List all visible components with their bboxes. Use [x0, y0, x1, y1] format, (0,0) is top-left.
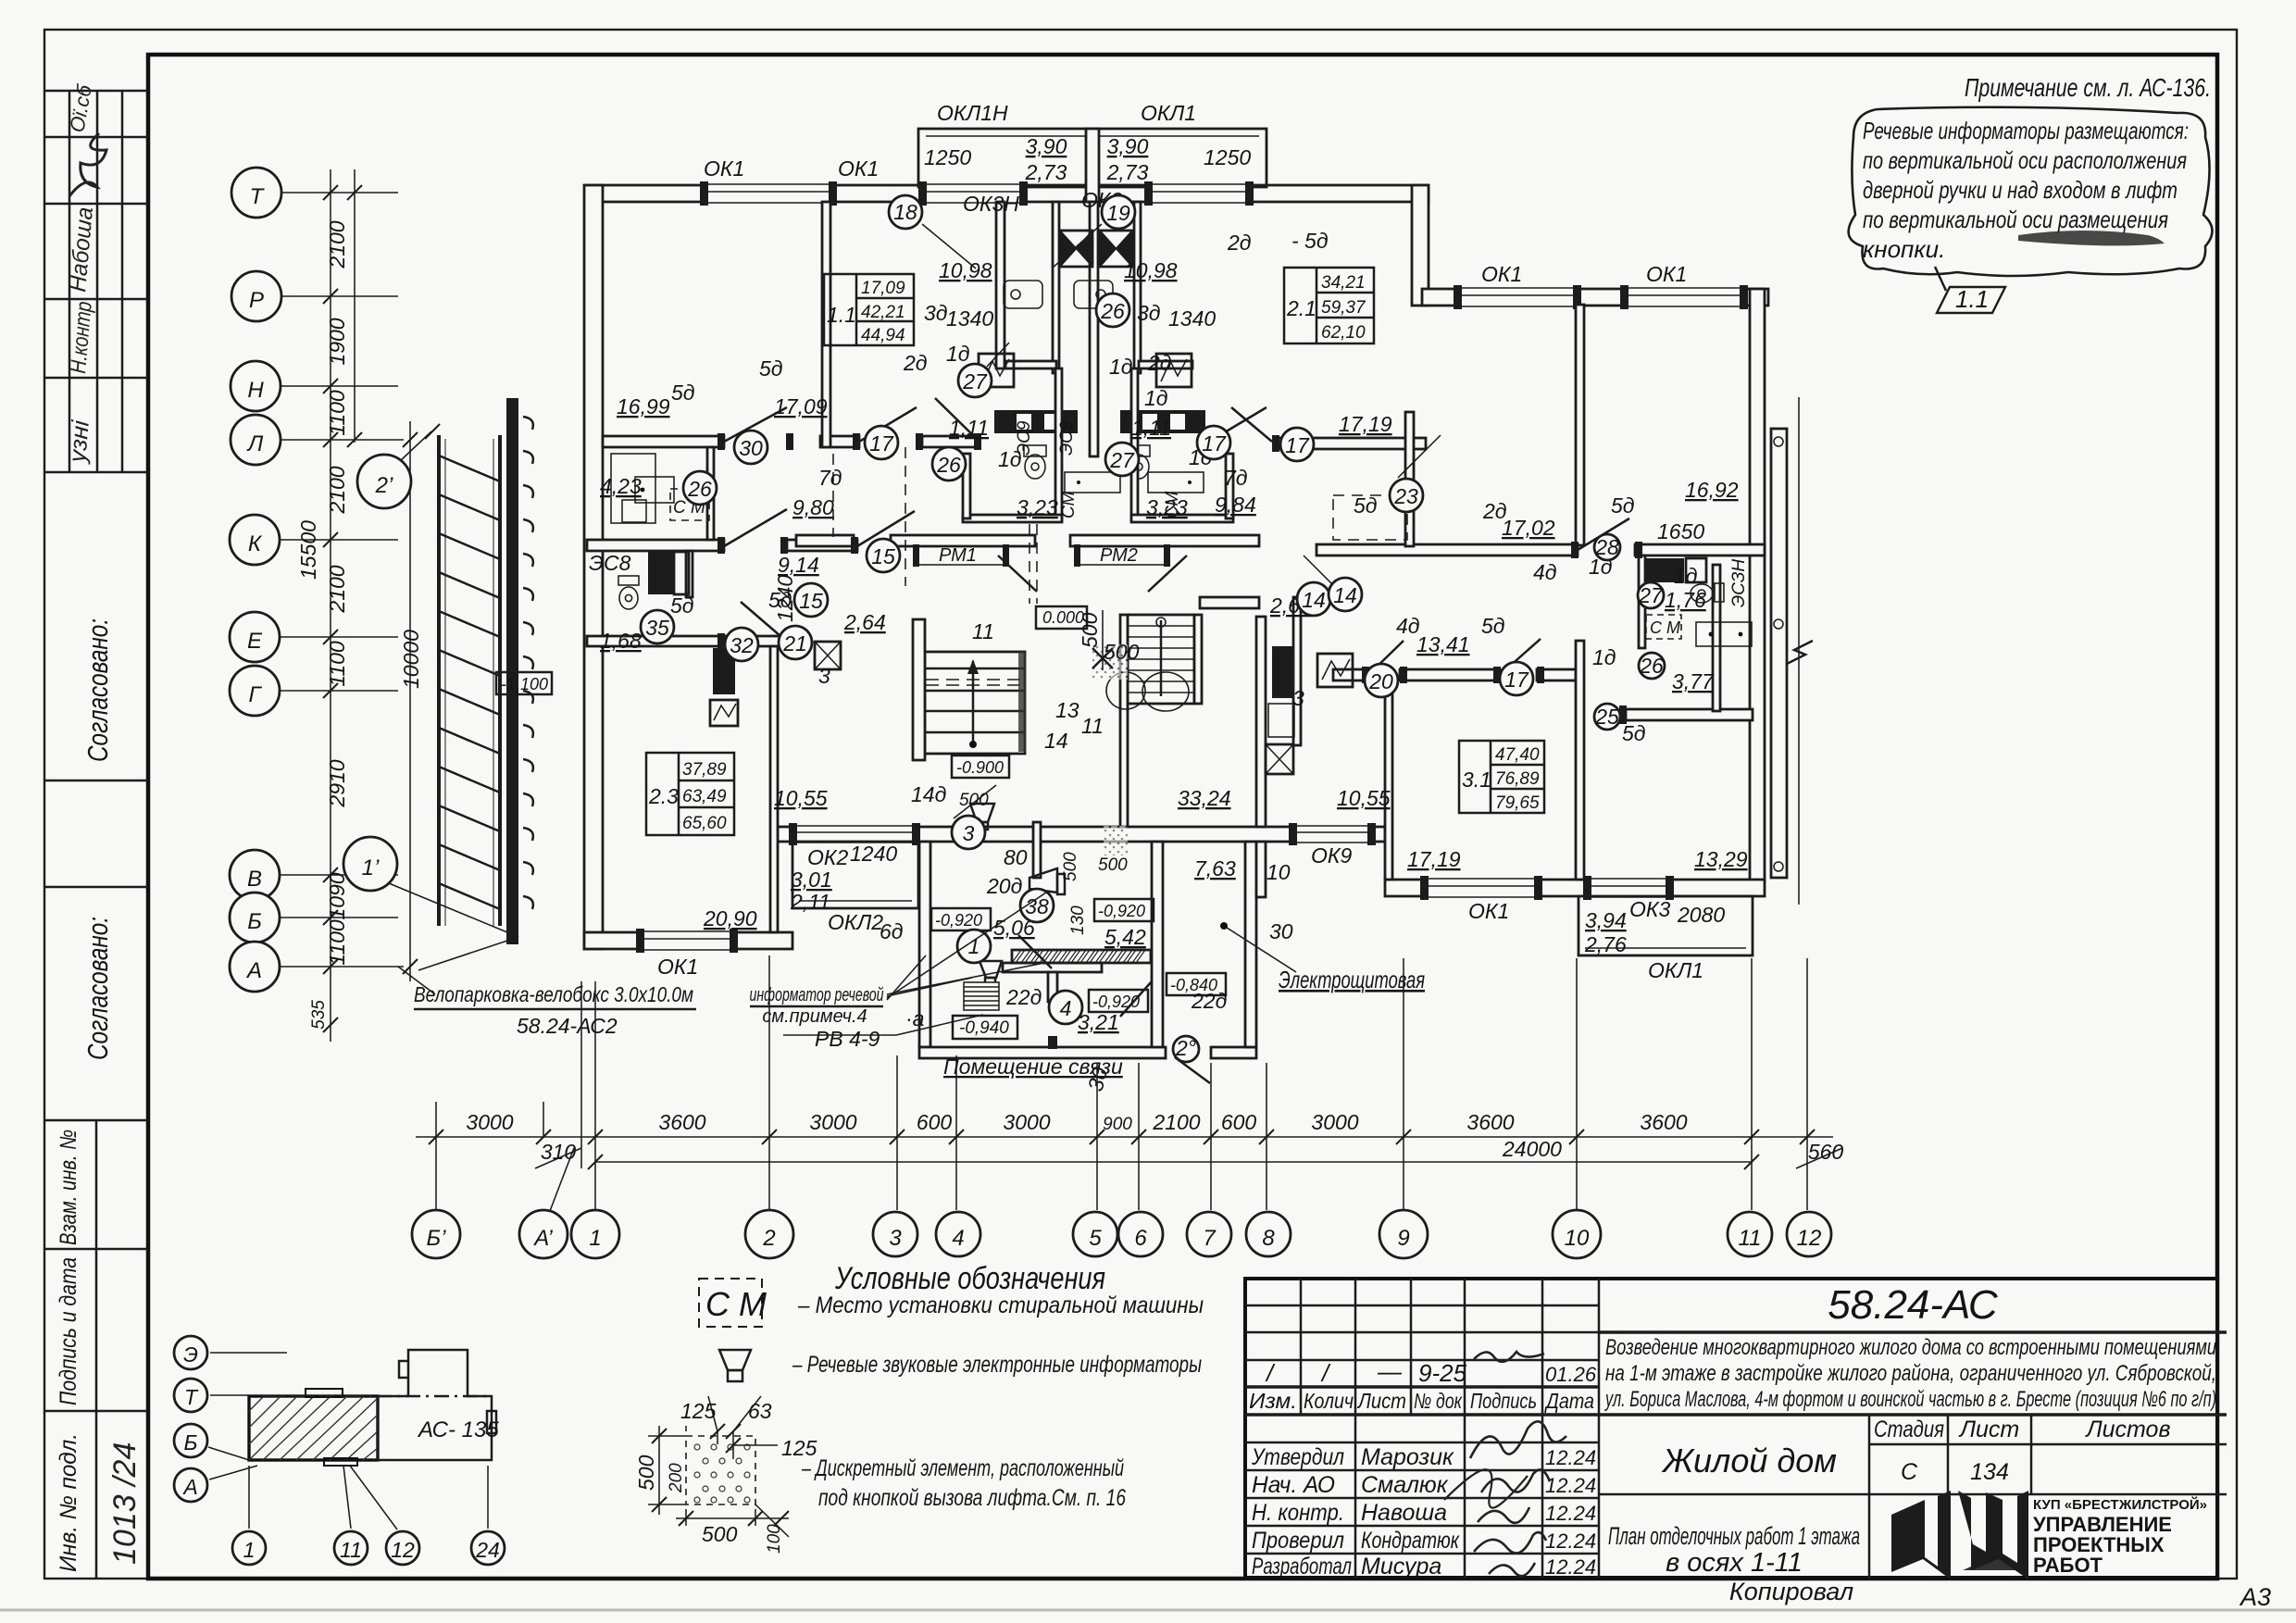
svg-text:ОК2: ОК2 — [807, 845, 848, 869]
svg-text:1д: 1д — [1674, 564, 1698, 588]
svg-text:ОК1: ОК1 — [704, 156, 744, 181]
svg-text:20,90: 20,90 — [703, 906, 757, 930]
svg-text:17: 17 — [1504, 668, 1529, 692]
svg-text:С М: С М — [705, 1285, 767, 1323]
axis bubble A — [230, 942, 280, 992]
svg-text:ОК1: ОК1 — [657, 955, 698, 979]
svg-text:1’: 1’ — [362, 855, 380, 880]
svg-text:2°: 2° — [1175, 1036, 1196, 1060]
bath tubs — [1004, 281, 1113, 308]
svg-text:11: 11 — [972, 619, 994, 643]
SM room walls right — [1639, 556, 1645, 648]
svg-text:26: 26 — [1100, 299, 1125, 323]
SM dashed box left — [670, 489, 709, 520]
svg-text:130: 130 — [1068, 905, 1088, 935]
svg-text:59,37: 59,37 — [1321, 298, 1366, 318]
svg-text:2,11: 2,11 — [790, 890, 830, 914]
svg-text:Р: Р — [249, 288, 264, 313]
svg-text:ЭС9: ЭС9 — [1057, 420, 1077, 456]
header row labels — [1249, 1389, 1594, 1413]
speaker trapezoids lower — [970, 804, 994, 830]
svg-text:узні: узні — [63, 418, 94, 466]
axis bubble 4 — [936, 1212, 980, 1256]
svg-text:3,77: 3,77 — [1672, 669, 1715, 693]
grille RV4-9 — [964, 982, 999, 1010]
svg-text:26: 26 — [687, 477, 712, 501]
tag 1.1 parallelogram — [1937, 287, 2005, 313]
keyplan axis bubble E — [174, 1336, 207, 1369]
svg-text:17,02: 17,02 — [1502, 516, 1555, 540]
svg-text:63,49: 63,49 — [682, 787, 727, 806]
svg-text:16,92: 16,92 — [1685, 478, 1739, 502]
svg-text:65,60: 65,60 — [682, 814, 727, 833]
svg-text:ОК3: ОК3 — [1629, 897, 1670, 921]
svg-text:10,98: 10,98 — [1124, 258, 1178, 282]
company logo — [1891, 1491, 2028, 1579]
svg-text:Инв. № подл.: Инв. № подл. — [56, 1433, 81, 1572]
svg-text:500: 500 — [1078, 612, 1102, 648]
svg-text:3600: 3600 — [658, 1110, 705, 1134]
svg-text:3,90: 3,90 — [1026, 134, 1067, 158]
svg-text:1,11: 1,11 — [949, 416, 989, 440]
svg-text:200: 200 — [667, 1463, 686, 1493]
svg-text:20: 20 — [1368, 669, 1393, 693]
left dimension chain line — [331, 169, 355, 1042]
svg-text:Т: Т — [184, 1385, 199, 1409]
window OK1 bottom-right — [1420, 875, 1542, 901]
svg-text:ОК1: ОК1 — [838, 156, 879, 181]
toilet 2 — [1128, 445, 1150, 479]
svg-text:7д: 7д — [1224, 466, 1248, 490]
svg-text:32: 32 — [730, 633, 754, 657]
window OK1 right-1 — [1454, 284, 1581, 310]
svg-text:5д: 5д — [1481, 614, 1505, 638]
bottom axis bubbles — [412, 1137, 1831, 1258]
svg-text:1,68: 1,68 — [600, 629, 642, 653]
svg-text:2,73: 2,73 — [1025, 160, 1067, 184]
svg-text:под кнопкой вызова лифта.См. п: под кнопкой вызова лифта.См. п. 16 — [818, 1485, 1126, 1511]
title block outer — [1245, 1279, 2217, 1578]
corridor top wall — [603, 436, 724, 447]
axis bubble A' — [519, 1210, 568, 1258]
svg-text:2.1: 2.1 — [1286, 296, 1316, 320]
svg-text:9,14: 9,14 — [778, 553, 819, 577]
axis bubble 10 — [1553, 1210, 1601, 1258]
svg-text:7: 7 — [1203, 1226, 1217, 1251]
chain tick marks — [429, 1130, 1815, 1169]
kitchen fixtures left (9,80) — [713, 648, 735, 694]
exterior wall top — [587, 185, 1429, 202]
svg-text:С: С — [1901, 1459, 1918, 1485]
svg-text:9,84: 9,84 — [1215, 493, 1256, 517]
svg-text:План отделочных работ 1 этажа: План отделочных работ 1 этажа — [1608, 1522, 1860, 1550]
svg-text:2100: 2100 — [325, 220, 349, 268]
logo texts — [2033, 1496, 2207, 1577]
svg-text:ОКЛ1: ОКЛ1 — [1141, 101, 1196, 125]
window OK1 bottom-left — [636, 928, 738, 954]
svg-text:28: 28 — [1594, 535, 1619, 559]
left bathroom block walls — [707, 447, 714, 540]
svg-text:№ док: № док — [1414, 1389, 1463, 1413]
svg-text:Кондратюк: Кондратюк — [1361, 1528, 1460, 1554]
svg-text:33,24: 33,24 — [1178, 786, 1231, 810]
toilet ES8 — [618, 576, 639, 609]
svg-text:А’: А’ — [532, 1226, 553, 1251]
window OK1 top-2 — [918, 181, 1028, 206]
svg-text:-0.900: -0.900 — [956, 758, 1004, 777]
window OK3 bottom-right — [1583, 875, 1674, 901]
exterior wall top right — [1422, 289, 1768, 306]
room divider wall 2 — [996, 202, 1004, 368]
svg-text:17,09: 17,09 — [861, 279, 905, 298]
svg-text:4: 4 — [1060, 996, 1072, 1020]
keyplan axis bubble 24 — [471, 1531, 505, 1565]
svg-text:1: 1 — [243, 1538, 256, 1562]
inner hatched wall svyazi — [1012, 950, 1151, 963]
svg-text:19: 19 — [1106, 201, 1130, 225]
svg-text:Возведение многоквартирного жи: Возведение многоквартирного жилого дома … — [1605, 1335, 2216, 1360]
svg-text:63: 63 — [748, 1399, 772, 1423]
svg-text:26: 26 — [1639, 654, 1664, 678]
svg-text:5,42: 5,42 — [1104, 925, 1146, 949]
legend dim lines — [648, 1396, 789, 1537]
svg-text:Проверил: Проверил — [1252, 1528, 1344, 1554]
room 20,90 right wall — [770, 646, 778, 932]
loggia divider — [1086, 129, 1099, 202]
svg-text:17: 17 — [1202, 431, 1227, 456]
svg-text:3: 3 — [889, 1226, 902, 1251]
svg-text:3600: 3600 — [1466, 1110, 1514, 1134]
svg-text:76,89: 76,89 — [1495, 769, 1540, 789]
svg-text:3д: 3д — [924, 301, 948, 325]
stair B block — [1128, 615, 1194, 704]
keyplan building right part — [262, 1350, 496, 1460]
svg-text:6: 6 — [1134, 1226, 1147, 1251]
svg-text:13: 13 — [1055, 698, 1079, 722]
svg-text:Б: Б — [184, 1430, 198, 1454]
svg-text:3: 3 — [818, 664, 830, 688]
left axis bubbles column — [230, 168, 281, 992]
svg-text:2100: 2100 — [1152, 1110, 1200, 1134]
stipple pads — [1092, 644, 1128, 855]
svg-text:17,09: 17,09 — [774, 394, 828, 418]
svg-text:ОК3Н: ОК3Н — [963, 192, 1019, 216]
svg-text:4: 4 — [952, 1226, 964, 1251]
keyplan axis bubble 1 — [232, 1531, 266, 1565]
inner wall svyazi vertical — [1048, 972, 1057, 1002]
svg-text:600: 600 — [917, 1110, 953, 1134]
svg-text:СМ: СМ — [1059, 491, 1079, 518]
svg-text:1д: 1д — [1144, 386, 1168, 410]
axis bubble 12 — [1787, 1212, 1831, 1256]
svg-text:1250: 1250 — [924, 145, 971, 169]
svg-text:9: 9 — [1397, 1226, 1409, 1251]
svg-text:см.примеч.4: см.примеч.4 — [762, 1006, 867, 1027]
corridor wall right (y588) — [1316, 544, 1578, 556]
leader lines to circles — [922, 224, 1441, 818]
keyplan axis bubble 12 — [386, 1531, 419, 1565]
svg-text:Условные обозначения: Условные обозначения — [834, 1261, 1105, 1296]
svg-text:8: 8 — [1262, 1226, 1275, 1251]
svg-text:5д: 5д — [759, 356, 783, 381]
svg-text:Мисура: Мисура — [1361, 1554, 1441, 1579]
svg-text:2100: 2100 — [325, 466, 349, 514]
svg-text:14: 14 — [1044, 729, 1068, 753]
svg-text:14: 14 — [1333, 583, 1357, 607]
svg-text:РМ1: РМ1 — [939, 545, 977, 566]
axis bubble L — [231, 415, 281, 465]
svg-text:Велопарковка-велобокс 3.0х10.0: Велопарковка-велобокс 3.0х10.0м — [414, 982, 693, 1006]
apartment info box 3.1 — [1459, 741, 1544, 813]
stair A left wall — [913, 619, 925, 760]
svg-text:Н: Н — [247, 378, 264, 403]
svg-text:Жилой дом: Жилой дом — [1661, 1442, 1837, 1479]
svg-text:500: 500 — [1061, 852, 1080, 881]
apartment info box 1.1 — [824, 274, 914, 345]
svg-text:Колич: Колич — [1304, 1389, 1354, 1413]
lower annex walls (Pomeshchenie svyazi / electro room) — [919, 842, 930, 1047]
apartment info box 2.3 — [646, 753, 734, 835]
svg-text:Дата: Дата — [1543, 1389, 1594, 1413]
svg-text:ОКЛ2: ОКЛ2 — [828, 910, 883, 934]
leader to 1.1 tag — [1935, 267, 1946, 291]
svg-text:Э: Э — [183, 1342, 198, 1367]
svg-text:В: В — [247, 867, 262, 892]
svg-text:4д: 4д — [1533, 560, 1557, 584]
balcony OKL1 bottom — [1578, 896, 1753, 955]
svg-text:18: 18 — [893, 200, 917, 224]
balcony OKL2 — [792, 842, 918, 908]
svg-text:Марозик: Марозик — [1361, 1444, 1454, 1470]
axis bubble 5 — [1073, 1212, 1117, 1256]
svg-text:12.24: 12.24 — [1545, 1502, 1596, 1525]
axis bubble P — [231, 271, 281, 321]
svg-text:Примечание см. л. АС-136.: Примечание см. л. АС-136. — [1965, 73, 2211, 102]
svg-text:13,29: 13,29 — [1694, 847, 1748, 871]
axis bubble 9 — [1379, 1210, 1428, 1258]
svg-text:5д: 5д — [1611, 493, 1635, 518]
chain dim labels — [466, 1110, 1050, 1134]
svg-text:12.24: 12.24 — [1545, 1474, 1596, 1497]
apartment info box 2.1 — [1284, 268, 1374, 343]
svg-text:Г: Г — [248, 682, 262, 707]
svg-text:1900: 1900 — [325, 318, 349, 365]
svg-text:11: 11 — [340, 1538, 362, 1562]
svg-text:1,76: 1,76 — [1665, 588, 1706, 612]
svg-text:27: 27 — [1109, 448, 1135, 472]
svg-text:15: 15 — [799, 589, 823, 613]
svg-text:26: 26 — [936, 453, 961, 477]
revision row — [1265, 1357, 1597, 1387]
svg-text:·а: ·а — [905, 1006, 924, 1030]
toilet right SM — [1691, 583, 1724, 603]
svg-text:58.24-АС2: 58.24-АС2 — [517, 1014, 618, 1038]
axis bubble B — [230, 893, 280, 943]
svg-text:600: 600 — [1221, 1110, 1257, 1134]
axis bubble 6 — [1118, 1212, 1163, 1256]
svg-text:5д: 5д — [670, 593, 694, 618]
dim labels in plan — [773, 134, 1725, 956]
outer pilaster strip right — [1771, 429, 1787, 878]
keyplan axis bubble T — [174, 1379, 207, 1412]
svg-text:Л: Л — [246, 431, 264, 456]
svg-text:3000: 3000 — [809, 1110, 856, 1134]
svg-text:Взам. инв. №: Взам. инв. № — [56, 1130, 81, 1245]
svg-text:Б’: Б’ — [427, 1226, 447, 1251]
svg-text:5: 5 — [1089, 1226, 1102, 1251]
svg-text:К: К — [248, 531, 263, 556]
bathroom top walls — [1005, 361, 1056, 368]
svg-text:500: 500 — [1098, 855, 1128, 875]
legend speaker icon — [719, 1350, 751, 1381]
svg-text:35: 35 — [645, 616, 669, 640]
toilet 1 — [1024, 445, 1046, 479]
svg-text:25: 25 — [1594, 705, 1619, 729]
svg-text:1340: 1340 — [946, 306, 993, 331]
svg-text:2д: 2д — [1147, 351, 1172, 375]
svg-text:17: 17 — [869, 431, 894, 456]
svg-text:9,80: 9,80 — [792, 495, 834, 519]
left stamp strip columns — [44, 91, 148, 1579]
svg-text:10,55: 10,55 — [774, 786, 828, 810]
svg-text:24000: 24000 — [1502, 1137, 1562, 1161]
stamp strip signatures (handwritten) — [63, 81, 106, 465]
svg-text:310: 310 — [541, 1140, 577, 1164]
svg-text:1650: 1650 — [1657, 519, 1704, 543]
svg-text:Помещение связи: Помещение связи — [943, 1055, 1123, 1079]
svg-text:кнопки.: кнопки. — [1863, 235, 1945, 263]
svg-text:125: 125 — [680, 1399, 717, 1423]
svg-text:10,55: 10,55 — [1337, 786, 1391, 810]
keyplan axis bubble B — [174, 1424, 207, 1457]
dashed lines — [833, 447, 1407, 604]
hall top wall stub — [1200, 597, 1259, 608]
svg-text:12.24: 12.24 — [1545, 1555, 1596, 1579]
svg-text:30: 30 — [739, 436, 763, 460]
svg-text:3000: 3000 — [466, 1110, 513, 1134]
svg-text:Лист: Лист — [1356, 1389, 1406, 1413]
svg-text:17,19: 17,19 — [1339, 412, 1392, 436]
svg-text:Е: Е — [247, 629, 263, 654]
svg-text:1090: 1090 — [325, 872, 349, 919]
svg-text:Изм.: Изм. — [1249, 1389, 1297, 1413]
svg-text:2: 2 — [762, 1226, 775, 1251]
svg-text:- 5д: - 5д — [1291, 229, 1329, 253]
window OK1 top-3 — [1144, 181, 1254, 206]
exterior wall right — [1750, 289, 1765, 881]
svg-text:16,99: 16,99 — [617, 394, 670, 418]
keyplan axis bubble A — [174, 1468, 207, 1502]
window OK9 — [1289, 822, 1376, 846]
svg-text:3,21: 3,21 — [1078, 1010, 1119, 1034]
svg-text:22д: 22д — [1005, 985, 1042, 1009]
svg-text:2д: 2д — [903, 351, 928, 375]
svg-text:62,10: 62,10 — [1321, 323, 1366, 343]
door posts — [717, 433, 1642, 683]
svg-text:1340: 1340 — [1168, 306, 1216, 331]
numbered door circles — [641, 195, 1665, 1062]
svg-text:А: А — [181, 1475, 197, 1499]
svg-text:27: 27 — [962, 369, 988, 393]
axis bubble B' — [412, 1210, 460, 1258]
outer face line right — [1798, 397, 1800, 905]
svg-text:ОК1: ОК1 — [1646, 262, 1687, 286]
axis bubble G — [230, 666, 280, 716]
svg-text:ОК1: ОК1 — [1468, 899, 1509, 923]
axis bubble 2 — [745, 1210, 793, 1258]
wall 13,41 top — [1333, 669, 1368, 680]
svg-text:Навоша: Навоша — [1361, 1500, 1447, 1526]
axis bubble T — [231, 168, 281, 218]
svg-text:2,64: 2,64 — [843, 610, 886, 634]
svg-text:1д: 1д — [946, 342, 970, 366]
svg-text:5д: 5д — [1354, 493, 1378, 518]
dark cabinet ES8 — [648, 552, 674, 594]
axis bubble 1' — [343, 837, 397, 891]
door tags — [670, 229, 1698, 1093]
window OK1 top-1 — [700, 181, 837, 206]
window labels — [589, 101, 1749, 982]
svg-text:– Место установки стиральной м: – Место установки стиральной машины — [797, 1292, 1204, 1318]
svg-text:15500: 15500 — [296, 520, 320, 580]
svg-text:Б: Б — [247, 909, 262, 934]
axis bubble K — [230, 515, 280, 565]
svg-text:-0,920: -0,920 — [1098, 902, 1145, 920]
left wardrobe furniture 4,23 — [611, 454, 655, 523]
svg-text:5д: 5д — [768, 588, 792, 612]
svg-text:47,40: 47,40 — [1495, 745, 1540, 765]
room divider wall 1 — [822, 202, 830, 447]
left thick boundary wall — [506, 398, 518, 944]
svg-text:2,76: 2,76 — [1584, 932, 1627, 956]
svg-text:2д: 2д — [1227, 231, 1252, 255]
svg-text:10: 10 — [1267, 860, 1291, 884]
svg-text:12: 12 — [1797, 1226, 1822, 1251]
wall x1496 vertical (17,19 left) — [1385, 680, 1392, 880]
svg-text:ОК1: ОК1 — [1481, 262, 1522, 286]
svg-text:7д: 7д — [818, 466, 842, 490]
svg-text:01.26: 01.26 — [1545, 1363, 1597, 1386]
axis bubble 11 — [1728, 1212, 1772, 1256]
svg-text:134: 134 — [1970, 1459, 2009, 1485]
exterior wall bottom right — [1385, 880, 1765, 896]
svg-text:Согласовано:: Согласовано: — [81, 917, 114, 1060]
axis bubble 8 — [1246, 1212, 1291, 1256]
svg-text:20д: 20д — [986, 874, 1022, 898]
exterior wall left — [584, 185, 603, 949]
svg-text:500: 500 — [634, 1454, 658, 1491]
ladder velobox — [439, 435, 500, 926]
svg-text:12: 12 — [391, 1538, 415, 1562]
svg-text:4,23: 4,23 — [600, 474, 642, 498]
handwritten signatures — [1444, 1352, 1566, 1576]
svg-text:-0,940: -0,940 — [959, 1018, 1009, 1038]
svg-text:Подпись: Подпись — [1470, 1389, 1537, 1413]
svg-text:по вертикальной оси размещения: по вертикальной оси размещения — [1863, 206, 2168, 233]
svg-text:10000: 10000 — [399, 630, 423, 689]
svg-text:5д: 5д — [1622, 721, 1646, 745]
break mark right — [1787, 641, 1813, 664]
svg-text:58.24-АС: 58.24-АС — [1828, 1282, 1999, 1328]
dim line 10000 — [409, 421, 411, 981]
svg-text:3,90: 3,90 — [1107, 134, 1149, 158]
svg-text:24: 24 — [475, 1538, 500, 1562]
small furniture under bathrooms — [1065, 472, 1120, 493]
svg-text:А: А — [245, 958, 262, 983]
axis bubble 7 — [1187, 1212, 1231, 1256]
svg-text:ОКЛ1Н: ОКЛ1Н — [937, 101, 1008, 125]
svg-text:13,41: 13,41 — [1416, 632, 1470, 656]
